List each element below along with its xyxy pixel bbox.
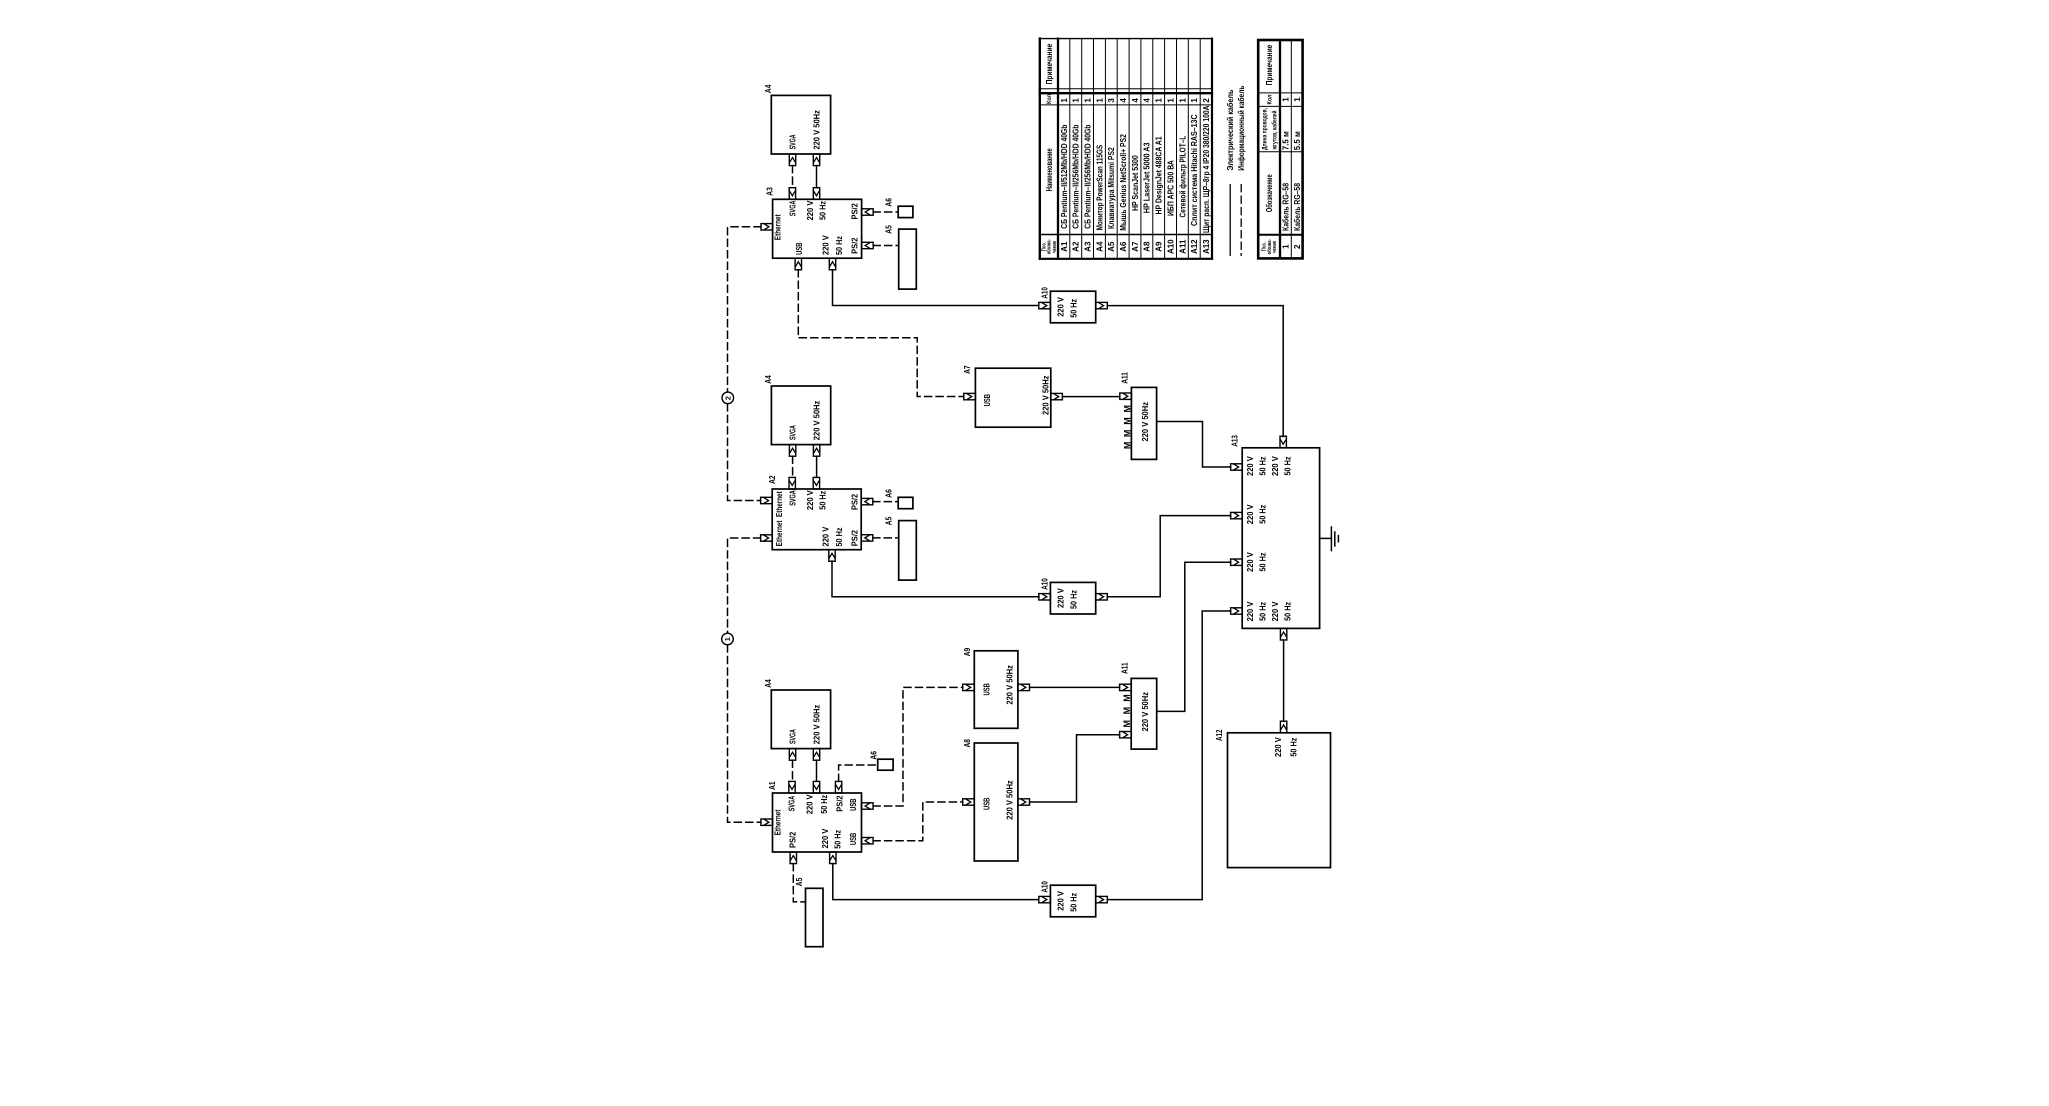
svg-text:1: 1 xyxy=(1072,98,1081,103)
svg-text:220 V 50Hz: 220 V 50Hz xyxy=(1005,665,1015,705)
port Ethernet lower on A2 left xyxy=(761,535,773,541)
svg-text:USB: USB xyxy=(848,799,858,811)
svg-text:A8: A8 xyxy=(1143,241,1152,252)
svg-text:Длина проводов,: Длина проводов, xyxy=(1262,108,1268,150)
port SVGA on A3 top xyxy=(789,188,795,200)
system unit A2 box xyxy=(772,489,861,550)
svg-text:50 Hz: 50 Hz xyxy=(818,201,828,220)
port 220V on A8 right xyxy=(1018,799,1030,805)
svg-text:50 Hz: 50 Hz xyxy=(1282,457,1292,476)
port 220V (monitor) xyxy=(813,445,819,457)
port 3 on A13 left xyxy=(1231,559,1243,565)
svg-text:4: 4 xyxy=(1119,98,1128,103)
wire A9-A11 xyxy=(1030,686,1120,688)
svg-text:220 V 50Hz: 220 V 50Hz xyxy=(1140,402,1150,442)
port on A13 bottom xyxy=(1280,628,1286,640)
UPS A10 box xyxy=(1050,291,1095,323)
svg-text:Клавиатура Mitsumi PS2: Клавиатура Mitsumi PS2 xyxy=(1107,147,1116,229)
port input on A10 left xyxy=(1039,302,1051,308)
svg-text:Ethernet: Ethernet xyxy=(773,809,783,835)
svg-text:2: 2 xyxy=(1202,98,1211,103)
svg-text:М: М xyxy=(1122,442,1132,450)
legend: electric cable (solid) xyxy=(1226,90,1235,256)
svg-text:1: 1 xyxy=(1190,98,1199,103)
svg-text:220 V: 220 V xyxy=(805,794,815,814)
port USB on A9 left xyxy=(963,684,975,690)
port USB upper on A1 right xyxy=(862,803,874,809)
svg-text:A1: A1 xyxy=(768,781,777,790)
port on A12 top xyxy=(1280,721,1286,733)
port input upper on A11 left xyxy=(1120,684,1132,690)
svg-text:220 V 50Hz: 220 V 50Hz xyxy=(812,705,822,745)
socket symbols M on A11 left xyxy=(1122,405,1132,449)
port PS/2 upper on A3 right xyxy=(862,209,874,215)
svg-text:A5: A5 xyxy=(884,225,893,234)
distribution board A13 box xyxy=(1242,448,1319,629)
mouse A6 box (cluster 2) xyxy=(898,497,913,508)
svg-text:1: 1 xyxy=(1282,97,1291,102)
svg-text:A10: A10 xyxy=(1041,287,1050,299)
svg-text:A9: A9 xyxy=(1155,241,1164,252)
svg-text:жгутов, кабелей: жгутов, кабелей xyxy=(1271,110,1278,150)
svg-text:A10: A10 xyxy=(1166,239,1175,254)
svg-text:Информационный кабель: Информационный кабель xyxy=(1237,86,1246,171)
svg-text:Электрический кабель: Электрический кабель xyxy=(1226,90,1235,171)
svg-text:USB: USB xyxy=(848,833,858,845)
ground symbol xyxy=(1320,527,1339,551)
svg-text:1: 1 xyxy=(1095,98,1104,103)
svg-text:220 V 50Hz: 220 V 50Hz xyxy=(812,110,822,150)
port 220V on A7 right xyxy=(1051,393,1063,399)
svg-text:A13: A13 xyxy=(1231,435,1240,447)
port on A13 top xyxy=(1280,436,1286,448)
svg-text:A3: A3 xyxy=(1084,241,1093,252)
port 220V on A3 top xyxy=(813,188,819,200)
svg-text:2: 2 xyxy=(724,396,733,400)
svg-text:USB: USB xyxy=(982,798,992,810)
wire 220V A4-A2 xyxy=(816,456,818,477)
svg-text:220 V 50Hz: 220 V 50Hz xyxy=(1041,376,1051,416)
svg-text:A6: A6 xyxy=(1119,241,1128,252)
port output on A10 right xyxy=(1096,594,1108,600)
svg-text:Монитор PowerScan 115GS: Монитор PowerScan 115GS xyxy=(1095,144,1104,230)
svg-text:1: 1 xyxy=(1293,97,1302,102)
svg-text:SVGA: SVGA xyxy=(788,201,798,217)
svg-text:50 Hz: 50 Hz xyxy=(1258,553,1268,572)
svg-text:М: М xyxy=(1122,707,1132,715)
UPS A10 box xyxy=(1050,582,1095,614)
svg-text:A4: A4 xyxy=(764,375,773,384)
svg-text:220 V: 220 V xyxy=(1056,297,1066,317)
port SVGA (monitor) xyxy=(789,749,795,761)
UPS A10 box xyxy=(1050,885,1095,917)
svg-text:СБ Pentium–II/512Mb/HDD 40Gb: СБ Pentium–II/512Mb/HDD 40Gb xyxy=(1060,125,1069,229)
svg-text:М: М xyxy=(1122,405,1132,413)
svg-text:М: М xyxy=(1122,694,1132,702)
wire 220V A1-A10 xyxy=(833,864,1039,900)
svg-text:A9: A9 xyxy=(963,647,972,656)
svg-text:220 V: 220 V xyxy=(1056,891,1066,911)
port input on A11 left xyxy=(1120,393,1132,399)
parts list table xyxy=(1040,39,1212,259)
wire SVGA A4-A3 (dashed) xyxy=(792,166,794,188)
surge filter A11 box (upper) xyxy=(1131,387,1156,459)
svg-text:1: 1 xyxy=(723,637,732,641)
port SVGA (monitor) xyxy=(789,445,795,457)
wire PS/2 A2-A6 (dashed) xyxy=(873,501,898,503)
port SVGA on A2 top xyxy=(789,477,795,489)
svg-text:A11: A11 xyxy=(1120,662,1129,674)
svg-text:Кабель RG–58: Кабель RG–58 xyxy=(1282,183,1291,231)
printer A8 box xyxy=(974,743,1018,861)
svg-text:A10: A10 xyxy=(1041,881,1050,893)
svg-text:220 V: 220 V xyxy=(821,235,831,255)
port 220V (monitor) xyxy=(813,749,819,761)
split system A12 box xyxy=(1228,733,1331,868)
svg-text:2: 2 xyxy=(1293,244,1302,249)
svg-text:М: М xyxy=(1122,720,1132,728)
svg-text:50 Hz: 50 Hz xyxy=(834,528,844,547)
port 220V on A1 top xyxy=(813,781,819,793)
svg-text:50 Hz: 50 Hz xyxy=(1068,893,1078,912)
node: cable 1 marker circle xyxy=(722,633,734,645)
wire Ethernet A3 to node 2 (dashed) xyxy=(728,227,762,392)
svg-text:1: 1 xyxy=(1178,98,1187,103)
wire A13-A12 xyxy=(1283,640,1285,721)
svg-text:50 Hz: 50 Hz xyxy=(1258,457,1268,476)
wire SVGA A4-A2 (dashed) xyxy=(792,456,794,477)
svg-text:220 V: 220 V xyxy=(821,526,831,546)
svg-text:USB: USB xyxy=(982,683,992,695)
port input lower on A11 left xyxy=(1120,732,1132,738)
wire A10-A13 port2 xyxy=(1107,516,1231,597)
port 220V on A3 bottom xyxy=(829,258,835,270)
port 220V on A1 bottom xyxy=(830,852,836,864)
svg-text:A7: A7 xyxy=(963,365,972,374)
svg-text:50 Hz: 50 Hz xyxy=(1282,602,1292,621)
svg-text:1: 1 xyxy=(1155,98,1164,103)
port SVGA (monitor) xyxy=(789,154,795,166)
svg-text:A7: A7 xyxy=(1131,241,1140,252)
svg-text:A3: A3 xyxy=(765,187,774,196)
svg-text:PS/2: PS/2 xyxy=(850,237,860,254)
svg-text:A12: A12 xyxy=(1190,239,1199,254)
svg-text:220 V: 220 V xyxy=(1245,504,1255,524)
svg-text:USB: USB xyxy=(982,394,992,406)
svg-text:Ethernet: Ethernet xyxy=(774,491,784,517)
keyboard A5 box (cluster 3) xyxy=(806,888,824,946)
svg-text:USB: USB xyxy=(794,242,804,254)
svg-text:220 V: 220 V xyxy=(1056,588,1066,608)
svg-text:СБ Pentium–II/256Mb/HDD 40Gb: СБ Pentium–II/256Mb/HDD 40Gb xyxy=(1084,125,1093,229)
svg-text:50 Hz: 50 Hz xyxy=(834,236,844,255)
svg-text:220 V: 220 V xyxy=(1245,552,1255,572)
wire A10-A13 top xyxy=(1107,306,1283,437)
svg-text:4: 4 xyxy=(1131,98,1140,103)
port input on A10 left xyxy=(1039,594,1051,600)
svg-text:220 V: 220 V xyxy=(1270,601,1280,621)
svg-text:SVGA: SVGA xyxy=(788,134,798,149)
port USB on A8 left xyxy=(963,799,975,805)
port USB on A7 left xyxy=(964,393,976,399)
svg-text:A8: A8 xyxy=(963,739,972,748)
keyboard A5 box (cluster 1) xyxy=(899,229,917,289)
cable table xyxy=(1258,40,1302,258)
port 220V on A2 top xyxy=(813,477,819,489)
svg-text:50 Hz: 50 Hz xyxy=(1068,590,1078,609)
wire PS/2 A1-A6 (dashed) xyxy=(839,765,878,781)
svg-text:50 Hz: 50 Hz xyxy=(1068,299,1078,318)
svg-text:220 V 50Hz: 220 V 50Hz xyxy=(1140,692,1150,732)
svg-text:A5: A5 xyxy=(795,877,804,886)
svg-text:A6: A6 xyxy=(869,751,878,760)
port output on A10 right xyxy=(1096,896,1108,902)
port PS/2 lower on A3 right xyxy=(862,242,874,248)
port USB lower on A1 right xyxy=(862,838,874,844)
svg-text:Примечание: Примечание xyxy=(1045,43,1054,84)
wire USB A1-A8 (dashed) xyxy=(873,802,963,841)
wire SVGA A4-A1 (dashed) xyxy=(792,760,794,781)
svg-text:Мышь Genius NetScroll+ PS2: Мышь Genius NetScroll+ PS2 xyxy=(1119,134,1128,231)
socket symbols M on A11 left (lower) xyxy=(1122,694,1132,727)
svg-text:чение: чение xyxy=(1052,241,1058,253)
svg-text:220 V: 220 V xyxy=(820,828,830,848)
svg-text:A13: A13 xyxy=(1202,239,1211,254)
svg-text:PS/2: PS/2 xyxy=(850,203,860,220)
svg-text:PS/2: PS/2 xyxy=(850,530,860,547)
wire PS/2 A2-A5 (dashed) xyxy=(873,537,899,539)
port PS/2 upper on A2 right xyxy=(861,498,873,504)
port 2 on A13 left xyxy=(1231,512,1243,518)
svg-text:Обозначение: Обозначение xyxy=(1265,174,1274,212)
wire USB A1-A9 (dashed) xyxy=(873,687,963,806)
svg-text:HP ScanJet 5300: HP ScanJet 5300 xyxy=(1131,155,1140,211)
wire 220V A3-A10 xyxy=(833,270,1039,306)
port PS/2 on A1 bottom xyxy=(790,852,796,864)
svg-text:A11: A11 xyxy=(1120,372,1129,384)
port input on A10 left xyxy=(1039,896,1051,902)
svg-text:HP LaserJet 5000 A3: HP LaserJet 5000 A3 xyxy=(1143,142,1152,213)
port output on A10 right xyxy=(1096,302,1108,308)
svg-text:Ethernet: Ethernet xyxy=(773,214,783,240)
mouse A6 box (cluster 3) xyxy=(878,759,893,770)
svg-text:220 V 50Hz: 220 V 50Hz xyxy=(812,401,822,441)
svg-text:50 Hz: 50 Hz xyxy=(1258,602,1268,621)
svg-text:Кабель RG–58: Кабель RG–58 xyxy=(1293,183,1302,231)
svg-text:A10: A10 xyxy=(1041,578,1050,590)
svg-text:50 Hz: 50 Hz xyxy=(1288,738,1298,757)
svg-text:A4: A4 xyxy=(1095,241,1104,252)
svg-text:220 V: 220 V xyxy=(1245,456,1255,476)
port PS/2 lower on A2 right xyxy=(861,535,873,541)
svg-text:A4: A4 xyxy=(764,84,773,93)
svg-text:SVGA: SVGA xyxy=(787,796,797,812)
legend: information cable (dashed) xyxy=(1237,86,1246,256)
svg-text:1: 1 xyxy=(1084,98,1093,103)
port 220V on A2 bottom xyxy=(829,550,835,562)
svg-text:PS/2: PS/2 xyxy=(850,494,860,511)
port SVGA on A1 top xyxy=(789,781,795,793)
svg-text:A11: A11 xyxy=(1178,239,1187,254)
svg-text:Щит расп. ЩР–8гр 4 IP20 380/22: Щит расп. ЩР–8гр 4 IP20 380/220 100А xyxy=(1202,105,1211,233)
wire A11-A13 port1 xyxy=(1157,422,1231,468)
svg-text:50 Hz: 50 Hz xyxy=(818,491,828,510)
wire A7-A11 xyxy=(1062,396,1119,398)
svg-text:A2: A2 xyxy=(768,475,777,484)
wire A10-A13 port4 xyxy=(1107,611,1231,900)
wire PS/2 A3-A6 (dashed) xyxy=(873,211,898,213)
svg-text:SVGA: SVGA xyxy=(787,490,797,506)
svg-text:220 V: 220 V xyxy=(805,200,815,220)
port Ethernet upper on A2 left xyxy=(761,497,773,503)
svg-text:HP DesignJet 488CA A1: HP DesignJet 488CA A1 xyxy=(1155,136,1164,215)
svg-text:чение: чение xyxy=(1272,241,1278,253)
svg-text:1: 1 xyxy=(1060,98,1069,103)
svg-text:ИБП APC 500 ВА: ИБП APC 500 ВА xyxy=(1166,160,1175,216)
svg-text:Примечание: Примечание xyxy=(1265,44,1274,85)
svg-text:220 V: 220 V xyxy=(1245,601,1255,621)
svg-text:SVGA: SVGA xyxy=(788,729,798,744)
wire A8-A11 xyxy=(1030,735,1120,802)
svg-text:PS/2: PS/2 xyxy=(834,795,844,812)
svg-text:Сетевой фильтр PILOT–L: Сетевой фильтр PILOT–L xyxy=(1178,136,1187,218)
port Ethernet on A3 left xyxy=(761,224,773,230)
svg-text:Кол: Кол xyxy=(1047,94,1053,104)
scanner A7 box xyxy=(975,368,1050,427)
svg-text:220 V: 220 V xyxy=(1273,737,1283,757)
svg-text:5.5 м: 5.5 м xyxy=(1293,131,1302,150)
wire 220V A2-A10 xyxy=(832,561,1039,597)
surge filter A11 box (lower) xyxy=(1131,678,1157,749)
wire PS/2 A1-A5 (dashed) xyxy=(793,864,805,902)
svg-text:3: 3 xyxy=(1107,98,1116,103)
svg-text:Наименование: Наименование xyxy=(1045,148,1054,191)
wire 220V A4-A3 xyxy=(816,166,818,188)
mouse A6 box (cluster 1) xyxy=(898,206,913,217)
svg-text:A5: A5 xyxy=(884,516,893,525)
svg-text:4: 4 xyxy=(1143,98,1152,103)
svg-text:М: М xyxy=(1122,430,1132,438)
svg-text:50 Hz: 50 Hz xyxy=(819,795,829,814)
svg-text:50 Hz: 50 Hz xyxy=(833,830,843,849)
svg-text:Сплит система Hitachi RAS–13C: Сплит система Hitachi RAS–13C xyxy=(1190,114,1199,226)
wire 220V A4-A1 xyxy=(816,760,818,781)
svg-text:220 V 50Hz: 220 V 50Hz xyxy=(1005,780,1015,820)
svg-text:A6: A6 xyxy=(885,489,894,498)
port 220V on A9 right xyxy=(1018,684,1030,690)
svg-text:A5: A5 xyxy=(1107,241,1116,252)
svg-text:СБ Pentium–II/256Mb/HDD 40Gb: СБ Pentium–II/256Mb/HDD 40Gb xyxy=(1072,125,1081,229)
port 1 on A13 left xyxy=(1231,464,1243,470)
system unit A3 box xyxy=(773,199,862,258)
svg-text:A4: A4 xyxy=(764,679,773,688)
svg-text:Ethernet: Ethernet xyxy=(774,520,784,546)
wire A2 Ethernet to node 1 (dashed) xyxy=(728,538,761,633)
wire node1 to A1 Ethernet (dashed) xyxy=(728,645,761,822)
wire node2 to A2 Ethernet (dashed) xyxy=(728,404,761,501)
svg-text:SVGA: SVGA xyxy=(788,425,798,440)
svg-text:220 V: 220 V xyxy=(1270,456,1280,476)
svg-text:7.5 м: 7.5 м xyxy=(1282,131,1291,150)
svg-text:A2: A2 xyxy=(1072,241,1081,252)
svg-text:A12: A12 xyxy=(1215,729,1224,741)
wire PS/2 A3-A5 (dashed) xyxy=(873,245,899,247)
wire A11-A13 port3 xyxy=(1157,562,1231,711)
system unit A1 box xyxy=(773,793,862,852)
svg-text:220 V: 220 V xyxy=(805,490,815,510)
svg-text:1: 1 xyxy=(1282,244,1291,249)
monitor A4 box xyxy=(771,386,830,445)
svg-text:Кол: Кол xyxy=(1267,94,1273,104)
port 220V (monitor) xyxy=(813,154,819,166)
port PS/2 on A1 top xyxy=(835,781,841,793)
svg-text:М: М xyxy=(1122,417,1132,425)
monitor A4 box xyxy=(771,690,830,749)
port 4 on A13 left xyxy=(1231,608,1243,614)
node: cable 2 marker circle xyxy=(722,392,734,404)
svg-text:50 Hz: 50 Hz xyxy=(1258,505,1268,524)
monitor A4 box xyxy=(771,95,830,154)
svg-text:A1: A1 xyxy=(1060,241,1069,252)
wire USB A3-A7 (dashed) xyxy=(798,270,963,397)
port USB on A3 bottom xyxy=(795,258,801,270)
svg-text:PS/2: PS/2 xyxy=(788,831,798,848)
port Ethernet on A1 left xyxy=(761,819,773,825)
svg-text:1: 1 xyxy=(1166,98,1175,103)
plotter A9 box xyxy=(974,651,1018,729)
svg-text:A6: A6 xyxy=(885,198,894,207)
keyboard A5 box (cluster 2) xyxy=(899,521,917,581)
